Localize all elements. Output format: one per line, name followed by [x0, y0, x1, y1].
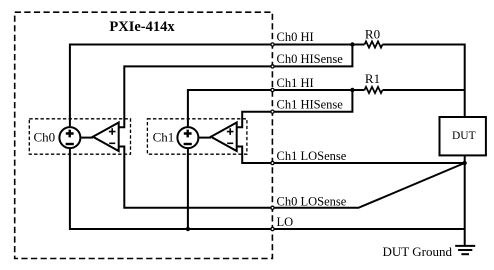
wire R1 to DUT	[383, 89, 465, 91]
svg-text:Ch1 HISense: Ch1 HISense	[277, 97, 344, 111]
wire Ch1 HI	[188, 90, 365, 126]
wire DUT to ground	[464, 156, 466, 246]
svg-text:Ch1: Ch1	[153, 129, 175, 144]
svg-text:Ch0 HI: Ch0 HI	[277, 30, 314, 44]
ground DUT Ground	[455, 246, 475, 254]
wire Ch1 HISense	[237, 90, 353, 127]
channel box Ch1	[147, 119, 247, 154]
terminal Ch1 LOSense	[271, 161, 274, 164]
junction Ch1 LO	[186, 227, 190, 231]
svg-text:DUT: DUT	[452, 130, 476, 142]
svg-text:LO: LO	[277, 215, 294, 229]
op-amp A1	[211, 123, 237, 152]
terminal Ch0 LOSense	[271, 206, 274, 209]
junction Ch1 sense tap	[350, 88, 354, 92]
resistor R1	[365, 87, 383, 93]
svg-text:DUT Ground: DUT Ground	[383, 244, 453, 259]
wire Ch1 source to LO	[187, 149, 189, 229]
resistor R0	[365, 41, 383, 47]
svg-text:Ch1 LOSense: Ch1 LOSense	[277, 149, 347, 163]
wire Ch0 HI	[70, 45, 365, 127]
terminal Ch1 HI	[271, 88, 274, 91]
source Ch0	[59, 127, 93, 148]
wire Ch1 LOSense	[237, 147, 465, 164]
terminal Ch0 HISense	[271, 65, 274, 68]
svg-text:Ch0 LOSense: Ch0 LOSense	[277, 194, 347, 208]
module box PXIe-414x	[15, 12, 273, 258]
junction Ch0 sense tap	[350, 42, 354, 46]
svg-text:Ch0: Ch0	[34, 129, 56, 144]
channel box Ch0	[29, 119, 130, 154]
source Ch1	[177, 127, 211, 148]
terminal Ch0 HI	[271, 43, 274, 46]
DUT box	[440, 117, 486, 155]
wire LO	[70, 149, 465, 229]
terminal LO	[271, 227, 274, 230]
svg-text:PXIe-414x: PXIe-414x	[109, 19, 175, 35]
junction LOSense at DUT	[462, 161, 466, 165]
terminal Ch1 HISense	[271, 110, 274, 113]
wire Ch0 LOSense	[119, 147, 465, 208]
svg-text:R0: R0	[365, 27, 380, 42]
wire R0 to DUT	[383, 45, 465, 118]
wire Ch0 HISense	[119, 45, 353, 128]
svg-text:Ch0 HISense: Ch0 HISense	[277, 52, 344, 66]
svg-text:Ch1 HI: Ch1 HI	[277, 76, 314, 90]
op-amp A0	[93, 123, 119, 152]
svg-text:R1: R1	[365, 71, 380, 86]
